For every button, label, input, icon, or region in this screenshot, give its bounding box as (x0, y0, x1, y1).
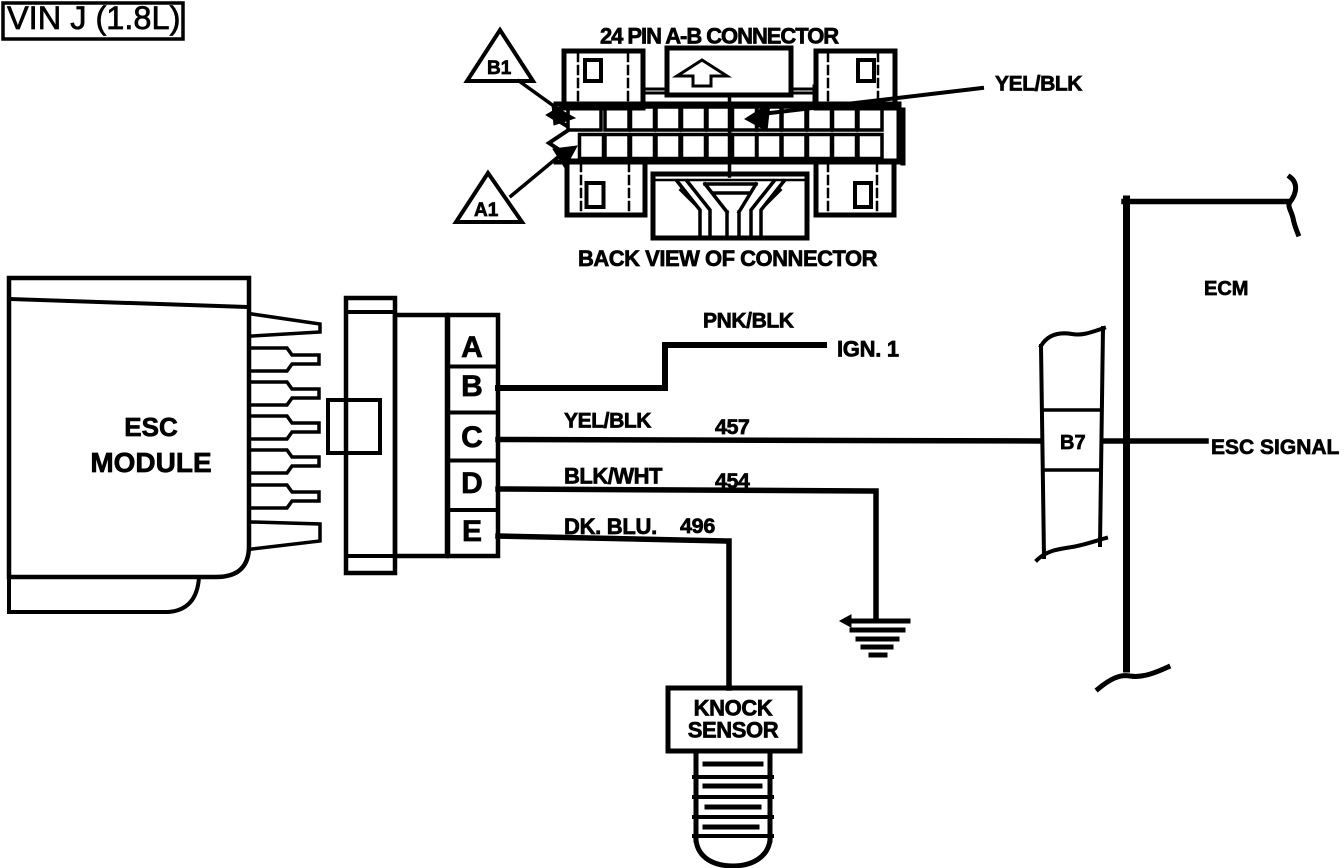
harness latch (328, 400, 380, 453)
bottom-left block keyway rect (587, 183, 604, 207)
wire D (BLK/WHT 454) to ground (498, 489, 876, 618)
svg-text:496: 496 (680, 514, 715, 538)
harness body (395, 315, 447, 556)
strain relief right band (751, 181, 784, 236)
module pin 7 (bottom tab) (252, 522, 320, 549)
svg-text:D: D (461, 467, 483, 500)
top-right block dashed lines (828, 53, 878, 106)
module pin 3 (252, 382, 319, 405)
svg-text:DK. BLU.: DK. BLU. (564, 514, 657, 539)
svg-text:E: E (462, 515, 482, 548)
VIN label box (3, 3, 183, 39)
connector top-left block (564, 51, 643, 108)
svg-text:ESC SIGNAL: ESC SIGNAL (1211, 436, 1340, 459)
wire E (DK. BLU. 496) to knock sensor (498, 536, 729, 688)
harness connector tall shell (346, 298, 395, 573)
module pin 6 (252, 485, 319, 508)
ECM top curl (1289, 177, 1298, 234)
svg-text:IGN. 1: IGN. 1 (837, 337, 899, 362)
module pin 2 (252, 348, 319, 371)
knock sensor dome (696, 840, 770, 866)
svg-text:B1: B1 (487, 58, 512, 79)
connector neck right (790, 86, 814, 106)
bottom-right block dashed lines (828, 163, 877, 213)
bottom-right block keyway rect (855, 183, 871, 207)
connector neck left (643, 86, 667, 106)
ESC module bottom tab (9, 577, 199, 612)
terminal column A-E (448, 315, 498, 556)
svg-text:A: A (461, 331, 483, 364)
pin row 2 (580, 135, 883, 159)
svg-text:ECM: ECM (1204, 278, 1248, 300)
connector left edge zigzag (549, 104, 567, 163)
strain relief inner top line (656, 179, 804, 182)
ESC module inner top line (9, 299, 249, 307)
knock sensor threaded body (696, 751, 770, 840)
connector bottom-right block (816, 161, 894, 215)
svg-text:24 PIN A-B CONNECTOR: 24 PIN A-B CONNECTOR (600, 24, 839, 49)
svg-text:ESC: ESC (124, 412, 178, 442)
connector arrow (up) (677, 60, 727, 86)
svg-text:B7: B7 (1060, 432, 1086, 454)
pin row 1 (568, 107, 882, 130)
wire B to IGN.1 (498, 345, 824, 388)
svg-text:VIN J (1.8L): VIN J (1.8L) (7, 0, 180, 36)
wire C (YEL/BLK 457) (498, 440, 1041, 442)
svg-text:A1: A1 (474, 200, 499, 221)
svg-text:PNK/BLK: PNK/BLK (703, 310, 794, 333)
module pin 1 (top tab) (252, 314, 320, 336)
connector top box U-shell (667, 48, 791, 95)
connector main band outline (556, 104, 903, 163)
svg-text:BACK VIEW OF CONNECTOR: BACK VIEW OF CONNECTOR (578, 246, 878, 271)
knock sensor box (668, 688, 800, 751)
strain relief left band (677, 181, 710, 236)
ground symbol (846, 619, 908, 624)
ECM bottom tilde (1098, 667, 1168, 689)
arrow from B1 (519, 81, 558, 109)
svg-text:BLK/WHT: BLK/WHT (564, 464, 663, 489)
svg-text:MODULE: MODULE (90, 447, 211, 478)
triangle A1 (456, 173, 522, 222)
top-left block dashed lines (578, 53, 628, 106)
YEL/BLK leader arrow (770, 88, 982, 113)
B7 connector (torn box) (1041, 346, 1044, 557)
wire from B7 to ESC SIGNAL (1103, 438, 1206, 444)
module pin 5 (252, 450, 319, 473)
module pin 4 (252, 416, 319, 439)
connector center divider (728, 95, 732, 176)
svg-text:457: 457 (715, 415, 750, 439)
connector bottom-left block (567, 161, 645, 215)
top-right block keyway rect (858, 60, 874, 81)
top-left block keyway rect (585, 60, 601, 81)
svg-text:SENSOR: SENSOR (688, 718, 779, 743)
connector top-right block (816, 51, 895, 108)
svg-text:454: 454 (715, 469, 750, 493)
svg-text:C: C (461, 421, 483, 454)
svg-text:B: B (461, 370, 483, 403)
strain relief funnel (705, 184, 756, 236)
harness shell inner lines (346, 312, 395, 556)
arrow from A1 (511, 157, 558, 196)
strain relief shell (653, 174, 807, 238)
svg-text:YEL/BLK: YEL/BLK (995, 73, 1082, 96)
ECM boundary line (1123, 199, 1130, 669)
triangle B1 (467, 30, 533, 81)
ESC module body (9, 278, 249, 577)
bottom-left block dashed lines (581, 163, 629, 213)
svg-text:YEL/BLK: YEL/BLK (564, 410, 651, 433)
